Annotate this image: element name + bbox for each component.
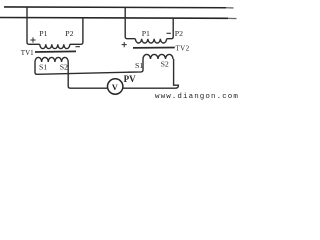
svg-text:PV: PV xyxy=(124,74,136,84)
winding TV1 primary P1-P2 xyxy=(40,44,70,48)
svg-text:www.diangon.com: www.diangon.com xyxy=(155,93,239,101)
wire TV1 P2 riser xyxy=(70,18,83,44)
core TV2 xyxy=(133,47,175,49)
polarity minus TV2 xyxy=(167,32,171,34)
wire voltmeter to TV2 S2 riser xyxy=(123,59,178,88)
svg-text:V: V xyxy=(112,82,119,92)
winding TV2 primary P1-P2 xyxy=(135,39,166,43)
wire TV2 P1 drop xyxy=(125,7,135,39)
bus line L2 xyxy=(0,17,228,20)
polarity minus TV1 xyxy=(76,46,80,48)
svg-text:P2: P2 xyxy=(175,29,183,38)
wire TV1 P1 drop xyxy=(27,7,40,44)
svg-text:S2: S2 xyxy=(161,60,169,69)
voltmeter PV circle xyxy=(108,79,123,94)
wire TV1 S1 down + long link to TV2 S1 xyxy=(35,59,143,74)
winding TV2 secondary S1-S2 xyxy=(143,54,173,59)
svg-text:P2: P2 xyxy=(65,29,73,38)
svg-text:S1: S1 xyxy=(135,61,143,70)
core TV1 xyxy=(35,50,76,53)
svg-text:TV1: TV1 xyxy=(21,49,34,57)
svg-text:S1: S1 xyxy=(39,63,47,72)
bus line L1 xyxy=(4,6,226,9)
polarity plus TV2 xyxy=(122,42,127,47)
wire TV2 P2 riser xyxy=(167,18,174,39)
svg-text:TV2: TV2 xyxy=(176,44,190,52)
winding TV1 secondary S1-S2 xyxy=(35,57,68,62)
svg-text:P1: P1 xyxy=(142,29,150,38)
wire TV1 S2 down to voltmeter xyxy=(68,62,107,88)
polarity plus TV1 xyxy=(30,37,35,42)
svg-text:P1: P1 xyxy=(39,29,47,38)
svg-text:S2: S2 xyxy=(60,63,68,72)
